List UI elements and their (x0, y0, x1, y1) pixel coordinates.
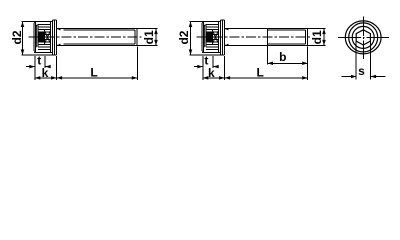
svg-text:s: s (358, 64, 365, 78)
svg-text:L: L (90, 66, 97, 80)
svg-text:L: L (257, 66, 264, 80)
svg-text:d2: d2 (10, 30, 24, 44)
svg-text:k: k (208, 66, 215, 80)
svg-text:b: b (279, 50, 286, 64)
svg-text:d2: d2 (177, 30, 191, 44)
svg-text:k: k (42, 66, 49, 80)
svg-text:d1: d1 (142, 30, 156, 44)
svg-text:d1: d1 (310, 30, 324, 44)
